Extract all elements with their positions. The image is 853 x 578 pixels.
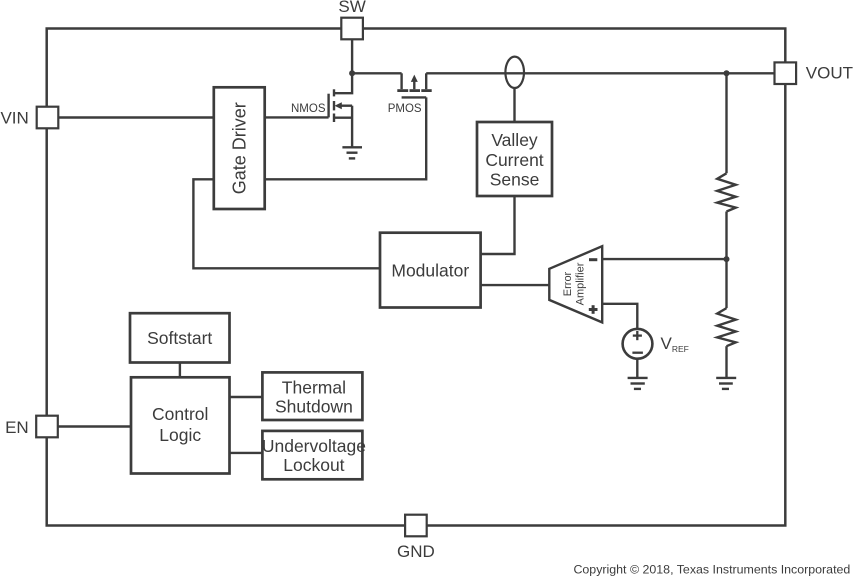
svg-text:Sense: Sense [490,170,540,190]
svg-text:EN: EN [5,418,29,437]
svg-text:VOUT: VOUT [806,64,853,83]
svg-text:Gate Driver: Gate Driver [230,102,250,194]
svg-text:Control: Control [152,404,208,424]
svg-text:GND: GND [397,542,435,561]
svg-text:Modulator: Modulator [391,260,469,280]
svg-text:Error: Error [562,271,574,296]
svg-text:Thermal: Thermal [282,377,346,397]
svg-text:Lockout: Lockout [283,455,344,475]
svg-text:SW: SW [338,0,365,16]
svg-text:PMOS: PMOS [388,103,422,115]
svg-text:Copyright © 2018, Texas Instru: Copyright © 2018, Texas Instruments Inco… [573,563,850,577]
svg-text:Softstart: Softstart [147,328,212,348]
svg-text:VIN: VIN [0,109,28,128]
svg-text:Logic: Logic [159,425,201,445]
svg-text:NMOS: NMOS [291,103,326,115]
svg-text:Undervoltage: Undervoltage [262,436,366,456]
svg-text:Current: Current [485,150,543,170]
svg-text:Shutdown: Shutdown [275,396,353,416]
svg-text:VREF: VREF [661,334,689,354]
svg-text:Valley: Valley [491,130,538,150]
svg-text:Amplifier: Amplifier [575,262,587,305]
